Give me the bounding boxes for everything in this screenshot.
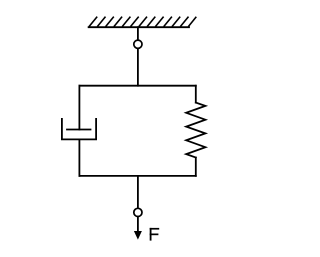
force arrow head xyxy=(134,231,142,240)
force label F xyxy=(150,228,160,241)
wire bottom bar to bottom pin xyxy=(137,176,139,208)
top pin joint circle xyxy=(134,40,142,48)
damper cylinder cup xyxy=(62,119,96,139)
wire ceiling to top pin xyxy=(137,27,139,40)
spring lead (right branch upper) xyxy=(195,86,197,103)
bottom bar of parallel frame xyxy=(79,175,195,177)
spring lead (right branch lower) xyxy=(195,158,197,176)
damper piston plate xyxy=(67,129,91,131)
damper rod (left branch upper) xyxy=(78,86,80,130)
ceiling line xyxy=(89,26,189,28)
force arrow shaft xyxy=(137,217,139,233)
wire top pin to frame xyxy=(137,49,139,86)
top bar of parallel frame xyxy=(79,85,195,87)
spring zigzag xyxy=(186,103,205,158)
bottom pin joint circle xyxy=(134,208,142,216)
fixed support hatching xyxy=(89,17,196,27)
wire damper to bottom bar xyxy=(78,139,80,176)
